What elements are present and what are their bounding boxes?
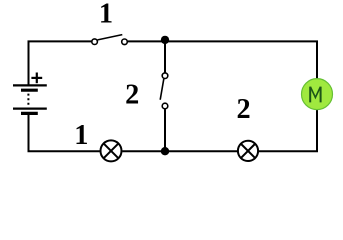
svg-text:2: 2 (125, 80, 139, 111)
svg-text:2: 2 (237, 94, 251, 125)
svg-text:1: 1 (99, 0, 113, 30)
svg-text:1: 1 (74, 120, 88, 151)
